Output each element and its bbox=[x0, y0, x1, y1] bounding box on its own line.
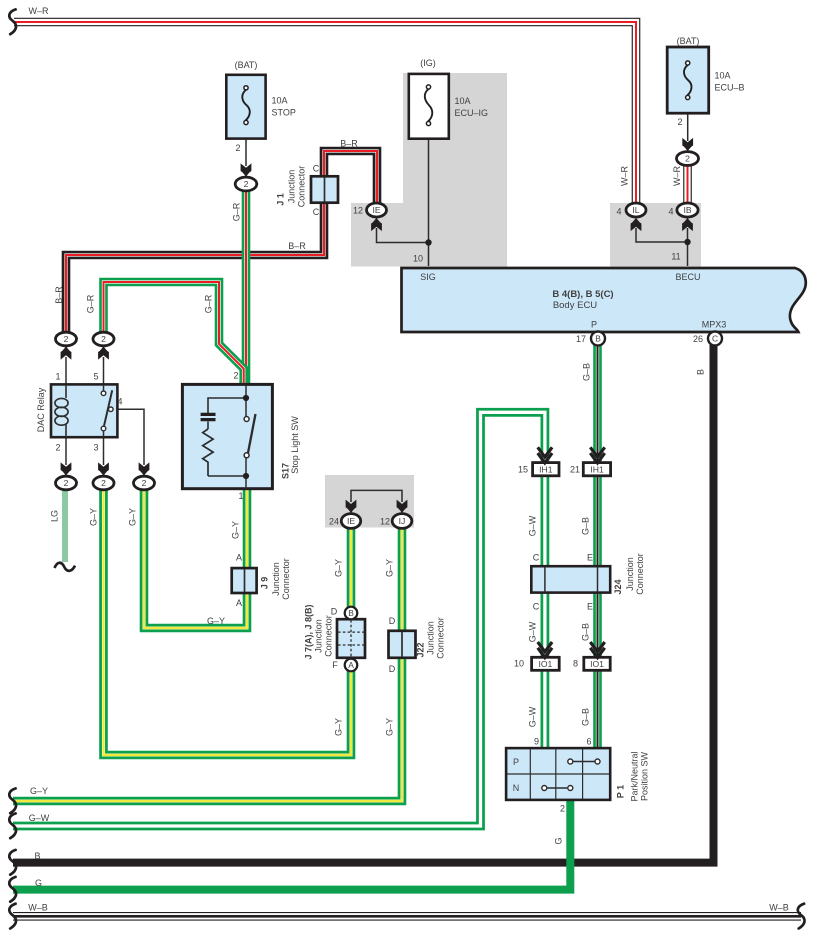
svg-text:P 1: P 1 bbox=[616, 785, 626, 798]
svg-text:24: 24 bbox=[329, 517, 339, 527]
svg-text:B–R: B–R bbox=[54, 286, 64, 304]
wire DAC pin 2 lead bbox=[65, 437, 67, 465]
break symbols left buses bbox=[9, 788, 16, 813]
svg-text:MPX3: MPX3 bbox=[702, 320, 727, 330]
svg-text:W–R: W–R bbox=[29, 6, 50, 16]
wire B-R J1/IE/DAC bbox=[66, 151, 377, 335]
svg-text:4: 4 bbox=[616, 207, 621, 217]
connector oval IJ (12) bbox=[392, 514, 412, 529]
svg-text:Park/Neutral: Park/Neutral bbox=[630, 751, 640, 801]
connector IO1 pin 8 bbox=[584, 657, 610, 670]
svg-text:ECU–IG: ECU–IG bbox=[455, 108, 489, 118]
svg-text:C: C bbox=[313, 207, 320, 217]
svg-text:G–B: G–B bbox=[581, 708, 591, 726]
grey shade around ECU-IG fuse and IE connector bbox=[351, 73, 507, 267]
wire B thick from MPX3 pin C to left bus bbox=[13, 344, 714, 863]
svg-text:2: 2 bbox=[55, 443, 60, 453]
connector oval 2 (ECU-B) bbox=[677, 152, 699, 166]
fuse box 10A ECU-B bbox=[667, 47, 709, 113]
svg-text:A: A bbox=[236, 598, 242, 608]
svg-text:J24: J24 bbox=[613, 579, 623, 594]
svg-text:Connector: Connector bbox=[635, 553, 645, 595]
junction connector J7(A) J8(B) bbox=[337, 619, 365, 658]
svg-text:G–Y: G–Y bbox=[89, 508, 99, 526]
wire IE-IJ bridge bbox=[351, 490, 402, 502]
grey shade around IL and IB connectors bbox=[610, 203, 701, 267]
svg-text:J 1: J 1 bbox=[276, 193, 286, 206]
svg-text:G–Y: G–Y bbox=[30, 786, 48, 796]
svg-text:IO1: IO1 bbox=[590, 659, 604, 669]
svg-text:6: 6 bbox=[586, 737, 591, 747]
svg-text:4: 4 bbox=[117, 397, 122, 407]
svg-text:G–W: G–W bbox=[528, 621, 538, 642]
J24 divider E bbox=[597, 567, 599, 592]
wire G-Y DAC pin3 connector to J7 pin A loop bbox=[104, 487, 352, 755]
svg-text:2: 2 bbox=[142, 478, 147, 488]
svg-text:3: 3 bbox=[93, 443, 98, 453]
svg-text:12: 12 bbox=[380, 517, 390, 527]
svg-text:D: D bbox=[389, 664, 396, 674]
stop light switch S17 box bbox=[182, 384, 272, 488]
svg-text:2: 2 bbox=[560, 804, 565, 814]
svg-text:F: F bbox=[332, 660, 338, 670]
svg-text:Junction: Junction bbox=[314, 619, 324, 653]
svg-text:ECU–B: ECU–B bbox=[715, 83, 745, 93]
wire G-B IO1 to P1 pin 6 bbox=[593, 656, 602, 752]
svg-text:E: E bbox=[587, 602, 593, 612]
junction connector J9 bbox=[232, 568, 257, 593]
svg-text:W–R: W–R bbox=[620, 166, 630, 187]
junction connector J22 bbox=[389, 631, 416, 658]
break symbol LG end bbox=[55, 563, 76, 571]
svg-text:SIG: SIG bbox=[420, 272, 436, 282]
break symbol right W-B bbox=[798, 904, 805, 929]
connector oval IE (12) bbox=[367, 203, 387, 217]
svg-text:P: P bbox=[591, 320, 597, 330]
svg-text:10A: 10A bbox=[272, 96, 288, 106]
wire G-R branch to DAC pin 5 bbox=[104, 282, 244, 384]
wire G-Y IJ to J22 bbox=[398, 524, 407, 633]
svg-text:G–W: G–W bbox=[528, 706, 538, 727]
svg-text:W–B: W–B bbox=[769, 903, 789, 913]
svg-text:G–Y: G–Y bbox=[128, 508, 138, 526]
svg-text:J22: J22 bbox=[416, 642, 426, 657]
DAC relay coil bbox=[65, 385, 67, 437]
J22 divider bbox=[401, 632, 403, 657]
connector IO1 pin 10 bbox=[532, 657, 560, 670]
svg-text:26: 26 bbox=[693, 334, 703, 344]
svg-text:B–R: B–R bbox=[340, 139, 358, 149]
svg-text:C: C bbox=[533, 553, 540, 563]
P1 switch contacts bbox=[573, 761, 594, 763]
wire G-Y J22 to left bus bbox=[13, 656, 402, 801]
svg-text:11: 11 bbox=[671, 252, 680, 262]
svg-text:G–R: G–R bbox=[204, 294, 214, 313]
svg-text:J 7(A), J 8(B): J 7(A), J 8(B) bbox=[304, 604, 314, 659]
svg-text:Connector: Connector bbox=[281, 558, 291, 600]
svg-text:W–R: W–R bbox=[672, 166, 682, 187]
connector IH1 pin 21 bbox=[583, 463, 610, 476]
svg-text:D: D bbox=[389, 616, 396, 626]
wire DAC pin 4 lead bbox=[113, 409, 145, 465]
connector arrows bbox=[241, 163, 252, 177]
svg-text:2: 2 bbox=[64, 334, 69, 344]
svg-text:G–B: G–B bbox=[581, 517, 591, 535]
svg-text:G: G bbox=[554, 837, 564, 844]
svg-text:1: 1 bbox=[55, 372, 60, 382]
svg-text:IL: IL bbox=[632, 205, 639, 215]
svg-text:IH1: IH1 bbox=[590, 464, 604, 474]
svg-text:DAC Relay: DAC Relay bbox=[36, 387, 46, 432]
svg-text:21: 21 bbox=[570, 465, 580, 475]
svg-text:G–B: G–B bbox=[582, 363, 592, 381]
wire IB to BECU pin 11 bbox=[687, 228, 689, 266]
svg-text:2: 2 bbox=[101, 334, 106, 344]
J7 pin B circle bbox=[345, 607, 358, 620]
connector IH1 pin 15 bbox=[533, 463, 559, 476]
svg-text:Junction: Junction bbox=[625, 557, 635, 591]
wire G-W IH1 to J24 to IO1 bbox=[541, 462, 550, 658]
svg-text:IE: IE bbox=[347, 516, 355, 526]
svg-text:2: 2 bbox=[64, 478, 69, 488]
svg-text:C: C bbox=[313, 164, 320, 174]
DAC relay switch bbox=[103, 385, 105, 391]
break symbol top W-R bbox=[9, 9, 16, 34]
svg-text:W–B: W–B bbox=[28, 903, 48, 913]
svg-text:E: E bbox=[587, 553, 593, 563]
wire DAC pin 5 lead bbox=[103, 357, 105, 384]
wire W-R top bus to IL bbox=[14, 22, 636, 206]
wire G-R STOP fuse to S17 pin 2 bbox=[242, 188, 251, 384]
svg-text:C: C bbox=[533, 602, 540, 612]
svg-text:N: N bbox=[513, 783, 520, 793]
svg-text:10: 10 bbox=[514, 659, 524, 669]
svg-text:B: B bbox=[34, 851, 40, 861]
svg-text:G–Y: G–Y bbox=[231, 521, 241, 539]
fuse box 10A STOP bbox=[226, 75, 265, 139]
wire G-Y J9 to DAC pin4 connector loop bbox=[144, 486, 247, 628]
wire DAC pin 3 lead bbox=[103, 437, 105, 465]
svg-text:17: 17 bbox=[576, 334, 586, 344]
svg-text:IJ: IJ bbox=[399, 516, 406, 526]
J7 pin A circle bbox=[345, 659, 358, 672]
svg-text:1: 1 bbox=[238, 491, 243, 501]
svg-text:IH1: IH1 bbox=[539, 464, 553, 474]
svg-text:C: C bbox=[712, 334, 718, 344]
svg-text:G–Y: G–Y bbox=[385, 718, 395, 736]
svg-text:15: 15 bbox=[518, 465, 528, 475]
wire G-B IH1 to J24 to IO1 bbox=[593, 462, 602, 658]
svg-text:G: G bbox=[35, 878, 42, 888]
svg-text:G–R: G–R bbox=[232, 202, 242, 221]
wire ECU-IG fuse to SIG pin 10 bbox=[428, 125, 430, 266]
wire G-Y S17 pin1 to J9 bbox=[243, 489, 252, 570]
svg-text:S17: S17 bbox=[281, 463, 291, 479]
connector oval IE (24) bbox=[341, 514, 360, 529]
wire DAC pin 1 lead bbox=[65, 357, 67, 384]
svg-text:B: B bbox=[595, 334, 601, 344]
wire G-Y IE to J7 pin B bbox=[347, 524, 356, 610]
svg-text:Position SW: Position SW bbox=[640, 751, 650, 801]
svg-text:G–Y: G–Y bbox=[334, 559, 344, 577]
connector oval IB (4) bbox=[677, 203, 698, 217]
svg-text:Connector: Connector bbox=[297, 166, 307, 208]
wire W-R fuse ECU-B to IB bbox=[683, 160, 692, 206]
svg-text:10A: 10A bbox=[455, 96, 471, 106]
svg-text:(IG): (IG) bbox=[420, 58, 436, 68]
svg-text:A: A bbox=[236, 553, 242, 563]
svg-text:8: 8 bbox=[573, 659, 578, 669]
junction connector J24 bbox=[531, 566, 610, 592]
J1 divider bbox=[324, 177, 326, 202]
junction node SIG bbox=[425, 239, 431, 245]
svg-text:10: 10 bbox=[413, 254, 423, 264]
svg-text:(BAT): (BAT) bbox=[235, 60, 258, 70]
svg-text:BECU: BECU bbox=[675, 272, 700, 282]
ECU pin B bbox=[591, 332, 605, 346]
svg-text:2: 2 bbox=[233, 371, 238, 381]
svg-text:9: 9 bbox=[534, 737, 539, 747]
fuse box 10A ECU-IG bbox=[409, 74, 449, 139]
wire G-W bus loop to IH1 bbox=[13, 412, 545, 826]
wire IE to SIG junction bbox=[377, 228, 429, 243]
wire G thick from P1 pin 2 to left bus bbox=[13, 799, 570, 890]
wire W-B bottom bus bbox=[13, 912, 801, 921]
svg-text:Connector: Connector bbox=[324, 615, 334, 657]
body ECU box B4(B) B5(C) bbox=[402, 268, 806, 332]
connector oval 2 (DAC pin3) bbox=[93, 476, 114, 490]
wire G-W IO1 to P1 pin 9 bbox=[541, 656, 550, 752]
svg-text:B 4(B), B 5(C): B 4(B), B 5(C) bbox=[552, 289, 613, 300]
svg-text:G–Y: G–Y bbox=[385, 559, 395, 577]
svg-text:J 9: J 9 bbox=[260, 577, 270, 590]
svg-text:2: 2 bbox=[244, 179, 249, 189]
junction node BECU bbox=[684, 239, 690, 245]
wire IL to BECU junction bbox=[636, 228, 688, 242]
svg-text:2: 2 bbox=[685, 154, 690, 164]
wire LG from DAC pin 2 connector bbox=[62, 488, 68, 562]
connector oval 2 (DAC pin2) bbox=[56, 476, 77, 490]
svg-text:2: 2 bbox=[677, 117, 682, 127]
wire STOP fuse pin 2 lead bbox=[245, 124, 247, 166]
svg-text:B: B bbox=[348, 608, 354, 618]
connector oval IL (4) bbox=[626, 203, 646, 217]
svg-text:IE: IE bbox=[372, 205, 380, 215]
S17 internal circuit bbox=[245, 385, 247, 417]
junction connector J1 bbox=[311, 176, 338, 202]
svg-text:10A: 10A bbox=[715, 71, 731, 81]
svg-text:G–Y: G–Y bbox=[207, 616, 225, 626]
svg-text:Body ECU: Body ECU bbox=[553, 300, 597, 311]
svg-text:B: B bbox=[696, 369, 706, 375]
svg-text:IO1: IO1 bbox=[538, 659, 552, 669]
svg-text:D: D bbox=[331, 607, 338, 617]
park/neutral position switch P1 bbox=[506, 748, 610, 800]
svg-text:Connector: Connector bbox=[436, 617, 446, 659]
wire ECU-B fuse pin 2 lead bbox=[687, 114, 689, 141]
svg-text:P: P bbox=[513, 757, 519, 767]
connector oval 2 (STOP) bbox=[235, 177, 257, 191]
svg-text:A: A bbox=[348, 660, 354, 670]
connector oval 2 (DAC pin5) bbox=[93, 332, 114, 346]
svg-text:Junction: Junction bbox=[287, 170, 297, 204]
svg-text:5: 5 bbox=[93, 372, 98, 382]
svg-text:IB: IB bbox=[683, 205, 691, 215]
svg-text:Junction: Junction bbox=[426, 621, 436, 655]
wire G-B body ECU pin B to IH1 bbox=[593, 344, 602, 464]
svg-text:2: 2 bbox=[235, 143, 240, 153]
svg-text:G–W: G–W bbox=[528, 515, 538, 536]
svg-text:LG: LG bbox=[50, 510, 60, 522]
J9 divider bbox=[244, 569, 246, 592]
connector oval 2 (DAC pin4) bbox=[134, 476, 155, 490]
svg-text:4: 4 bbox=[668, 207, 673, 217]
svg-text:G–Y: G–Y bbox=[334, 718, 344, 736]
svg-text:G–B: G–B bbox=[581, 623, 591, 641]
svg-text:B–R: B–R bbox=[288, 241, 306, 251]
svg-text:STOP: STOP bbox=[272, 108, 296, 118]
svg-text:G–W: G–W bbox=[29, 813, 50, 823]
svg-text:12: 12 bbox=[353, 206, 363, 216]
svg-text:Junction: Junction bbox=[271, 562, 281, 596]
grey shade around IE/IJ junction bridge bbox=[325, 475, 414, 528]
J24 divider C bbox=[544, 567, 546, 592]
svg-text:2: 2 bbox=[101, 478, 106, 488]
connector oval 2 (DAC pin1) bbox=[56, 332, 77, 346]
ECU pin C bbox=[708, 332, 722, 346]
harness double arrows bbox=[538, 447, 552, 457]
svg-text:(BAT): (BAT) bbox=[677, 36, 700, 46]
DAC relay box bbox=[51, 384, 117, 437]
svg-text:G–R: G–R bbox=[86, 294, 96, 313]
svg-text:Stop Light SW: Stop Light SW bbox=[290, 416, 300, 474]
